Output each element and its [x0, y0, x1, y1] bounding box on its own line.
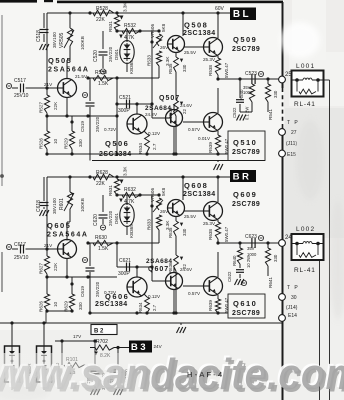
svg-text:2SC789: 2SC789	[232, 149, 260, 156]
svg-text:Q606: Q606	[105, 292, 129, 301]
svg-text:22K: 22K	[53, 262, 58, 271]
svg-text:B 2: B 2	[94, 329, 104, 335]
svg-text:25V220: 25V220	[95, 281, 100, 297]
svg-text:100KB: 100KB	[80, 36, 85, 50]
svg-text:Q605: Q605	[47, 221, 71, 230]
svg-text:330: 330	[78, 302, 83, 310]
svg-text:2.7: 2.7	[152, 143, 157, 150]
svg-text:C518: C518	[36, 30, 42, 42]
svg-text:L002: L002	[296, 226, 315, 233]
svg-text:4.7K: 4.7K	[124, 35, 135, 41]
svg-text:R531: R531	[108, 21, 113, 32]
svg-text:KB365: KB365	[129, 60, 134, 74]
svg-text:25V10: 25V10	[14, 93, 29, 99]
svg-text:3.3K: 3.3K	[123, 166, 128, 176]
svg-text:R538: R538	[208, 65, 213, 76]
svg-text:R541: R541	[268, 109, 273, 120]
svg-text:R641: R641	[268, 277, 273, 288]
svg-text:22K: 22K	[96, 17, 106, 23]
svg-text:R527: R527	[39, 102, 44, 113]
svg-text:H-AF-4: H-AF-4	[187, 370, 224, 379]
svg-text:Q509: Q509	[233, 35, 257, 44]
svg-text:25V220: 25V220	[108, 46, 113, 62]
svg-text:C520: C520	[93, 50, 99, 62]
svg-text:C618: C618	[36, 200, 42, 212]
svg-text:22: 22	[182, 109, 187, 114]
svg-text:330: 330	[78, 139, 83, 147]
svg-text:21.5V: 21.5V	[75, 74, 88, 79]
svg-text:R634: R634	[138, 302, 143, 313]
svg-text:R626: R626	[39, 301, 44, 312]
svg-text:Q608: Q608	[184, 181, 208, 190]
svg-text:T P: T P	[287, 285, 299, 291]
svg-text:5W0.47: 5W0.47	[224, 297, 229, 313]
svg-text:C622: C622	[227, 271, 232, 282]
svg-text:2SC789: 2SC789	[232, 46, 260, 53]
svg-text:5W0.47: 5W0.47	[224, 62, 229, 78]
svg-text:21V: 21V	[44, 243, 53, 248]
svg-text:1000: 1000	[243, 90, 253, 95]
svg-text:5W0.47: 5W0.47	[224, 226, 229, 242]
svg-text:25.5V: 25.5V	[184, 50, 197, 55]
svg-text:T P: T P	[287, 120, 299, 126]
svg-text:3.3K: 3.3K	[123, 2, 128, 12]
svg-text:R631: R631	[108, 185, 113, 196]
svg-text:BL: BL	[233, 9, 251, 20]
svg-text:30: 30	[291, 295, 297, 301]
svg-text:C620: C620	[93, 214, 99, 226]
svg-text:0.1 2W: 0.1 2W	[245, 107, 250, 120]
svg-text:22K: 22K	[96, 181, 106, 187]
svg-text:10 2W: 10 2W	[246, 256, 251, 268]
svg-text:0.01V: 0.01V	[198, 136, 211, 141]
svg-text:330: 330	[182, 228, 187, 236]
svg-text:0.72V: 0.72V	[104, 127, 117, 132]
svg-text:Q607: Q607	[148, 266, 169, 273]
svg-text:C619: C619	[80, 286, 85, 297]
svg-text:2SC789: 2SC789	[232, 310, 260, 317]
svg-text:Q506: Q506	[105, 139, 129, 148]
svg-text:5K8: 5K8	[161, 187, 166, 196]
svg-text:2.7: 2.7	[152, 304, 157, 311]
svg-text:24.6V: 24.6V	[180, 267, 193, 272]
svg-text:R639: R639	[208, 300, 213, 311]
svg-text:Q609: Q609	[233, 190, 257, 199]
svg-text:Q510: Q510	[233, 138, 257, 147]
svg-text:R526: R526	[39, 138, 44, 149]
svg-text:RL-41: RL-41	[294, 267, 316, 274]
svg-text:C519: C519	[80, 121, 85, 132]
svg-text:300P: 300P	[118, 108, 130, 114]
svg-text:R535: R535	[168, 63, 173, 74]
svg-text:5W0.47: 5W0.47	[224, 138, 229, 154]
svg-text:2SC1384: 2SC1384	[95, 301, 128, 308]
svg-text:60V: 60V	[215, 6, 225, 12]
svg-text:R633: R633	[147, 219, 152, 230]
svg-text:C623: C623	[245, 234, 257, 240]
svg-text:25V220: 25V220	[95, 116, 100, 132]
svg-text:C617: C617	[14, 242, 26, 248]
svg-text:1.5K: 1.5K	[98, 246, 109, 252]
svg-text:L001: L001	[296, 63, 315, 70]
svg-text:Q505: Q505	[48, 56, 72, 65]
svg-text:D501: D501	[114, 49, 119, 60]
svg-text:D601: D601	[114, 213, 119, 224]
svg-text:C521: C521	[119, 95, 131, 101]
svg-text:10: 10	[53, 138, 58, 144]
svg-text:25V10: 25V10	[14, 255, 29, 261]
svg-text:10: 10	[53, 301, 58, 307]
svg-text:C523: C523	[245, 71, 257, 77]
svg-text:R532: R532	[124, 23, 136, 29]
svg-text:22K: 22K	[53, 101, 58, 110]
svg-text:330: 330	[273, 90, 278, 98]
svg-text:E14: E14	[288, 313, 297, 319]
svg-text:2SC1384: 2SC1384	[183, 30, 216, 37]
svg-text:C621: C621	[119, 258, 131, 264]
svg-text:R601: R601	[59, 198, 65, 210]
svg-text:330: 330	[273, 254, 278, 262]
svg-text:2SA564A: 2SA564A	[48, 67, 90, 74]
svg-text:R536: R536	[168, 107, 173, 118]
svg-text:21V: 21V	[44, 82, 53, 87]
svg-text:0.57V: 0.57V	[188, 127, 201, 132]
svg-text:Q610: Q610	[233, 299, 257, 308]
svg-text:R530: R530	[95, 70, 107, 76]
svg-text:25.3V: 25.3V	[203, 57, 216, 62]
svg-text:17V: 17V	[73, 334, 82, 339]
svg-text:35V: 35V	[247, 246, 255, 251]
svg-text:R534: R534	[138, 143, 143, 154]
svg-text:R638: R638	[208, 229, 213, 240]
svg-text:2SC1384: 2SC1384	[183, 191, 216, 198]
svg-text:KB365: KB365	[129, 224, 134, 238]
svg-text:RL-41: RL-41	[294, 101, 316, 108]
svg-text:35V100: 35V100	[52, 32, 57, 48]
svg-text:100KB: 100KB	[80, 198, 85, 212]
svg-text:R632: R632	[124, 187, 136, 193]
svg-text:R702: R702	[96, 339, 108, 345]
svg-text:1.5K: 1.5K	[98, 81, 109, 87]
svg-text:R630: R630	[95, 235, 107, 241]
svg-text:R533: R533	[147, 55, 152, 66]
svg-text:C522: C522	[232, 107, 237, 118]
svg-text:R528: R528	[96, 6, 108, 12]
svg-text:Q508: Q508	[184, 21, 208, 30]
svg-text:R635: R635	[168, 227, 173, 238]
svg-text:R539: R539	[208, 142, 213, 153]
svg-text:R628: R628	[96, 170, 108, 176]
svg-text:E15: E15	[287, 152, 296, 158]
svg-text:(J14): (J14)	[286, 305, 298, 311]
svg-text:R629: R629	[64, 301, 69, 312]
svg-text:C517: C517	[14, 78, 26, 84]
svg-text:BR: BR	[233, 171, 252, 182]
svg-text:27: 27	[291, 130, 297, 136]
svg-text:2SC789: 2SC789	[232, 201, 260, 208]
svg-text:25V220: 25V220	[108, 210, 113, 226]
svg-text:VR505: VR505	[59, 32, 65, 48]
svg-text:330: 330	[182, 64, 187, 72]
svg-text:5K8: 5K8	[161, 23, 166, 32]
svg-text:24.6V: 24.6V	[180, 103, 193, 108]
svg-text:R627: R627	[39, 263, 44, 274]
svg-text:R529: R529	[64, 138, 69, 149]
svg-text:(J11): (J11)	[286, 141, 297, 147]
svg-text:R640: R640	[232, 255, 237, 266]
svg-text:35V100: 35V100	[52, 198, 57, 214]
svg-text:24.2V: 24.2V	[145, 112, 158, 117]
svg-text:2SA564A: 2SA564A	[47, 232, 89, 239]
svg-text:300P: 300P	[118, 271, 130, 277]
svg-text:25.5V: 25.5V	[184, 214, 197, 219]
svg-text:R636: R636	[168, 262, 173, 273]
svg-text:25.3V: 25.3V	[203, 221, 216, 226]
svg-text:0.57V: 0.57V	[188, 291, 201, 296]
